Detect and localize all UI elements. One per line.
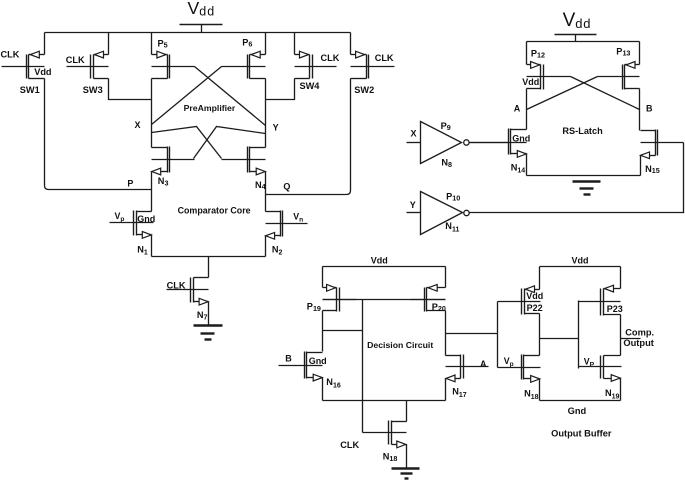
- label N16: [326, 377, 341, 389]
- label Vdd (SW1 bulk): [34, 67, 51, 77]
- wire N4 source to N2 drain: [265, 172, 267, 212]
- label Decision Circuit: [367, 340, 433, 350]
- wire tail to N7 drain: [208, 257, 210, 278]
- wire X input lead: [407, 142, 421, 144]
- svg-text:Gnd: Gnd: [137, 214, 155, 224]
- label SW1: [20, 85, 40, 95]
- transistor N18: [363, 421, 407, 448]
- wire node Y to N3 gate: [194, 127, 266, 159]
- label CLK (SW2 gate): [375, 53, 394, 63]
- svg-text:B: B: [646, 104, 653, 114]
- Vdd supply symbol (RS-latch): [555, 10, 597, 41]
- svg-text:SW4: SW4: [300, 81, 321, 91]
- svg-text:Y: Y: [410, 200, 416, 210]
- wire P22 drain to N18 drain: [539, 314, 541, 356]
- svg-text:A: A: [514, 104, 521, 114]
- wire N16 source to bottom rail: [322, 378, 324, 401]
- svg-text:SW1: SW1: [20, 85, 40, 95]
- transistor N14: [471, 129, 527, 158]
- Vdd supply symbol (comparator): [180, 0, 223, 32]
- transistor SW2: [351, 51, 395, 78]
- wire P20 source to rail: [445, 267, 447, 288]
- svg-text:Vdd: Vdd: [371, 256, 388, 266]
- label N18: [383, 452, 398, 463]
- label P23: [607, 304, 623, 314]
- label Output Buffer: [551, 428, 612, 438]
- label A (N17 gate): [480, 359, 487, 369]
- svg-text:Gnd: Gnd: [512, 134, 530, 144]
- label SW3: [83, 85, 103, 95]
- wire latch ground rail: [527, 175, 641, 177]
- label P: [127, 179, 133, 189]
- label P12: [531, 49, 545, 60]
- ground (RS-latch): [573, 182, 601, 195]
- label Gnd (buffer ground): [568, 406, 587, 416]
- wire SW2 source to rail: [350, 33, 352, 55]
- svg-text:P20: P20: [432, 302, 446, 313]
- wire decision output to buffer: [446, 333, 498, 335]
- wire buffer2 input column: [578, 301, 580, 369]
- svg-text:P9: P9: [441, 121, 451, 132]
- label Comp.: [625, 328, 654, 338]
- svg-text:SW2: SW2: [354, 85, 374, 95]
- transistor SW3: [67, 51, 109, 78]
- label Vdd (P22 bulk): [526, 291, 543, 301]
- svg-text:SW3: SW3: [83, 85, 103, 95]
- label Comparator Core: [178, 206, 251, 216]
- svg-text:CLK: CLK: [340, 440, 359, 450]
- label N4: [255, 180, 266, 191]
- label Vp (N1 gate): [115, 211, 125, 223]
- wire SW1 source to rail: [44, 33, 46, 55]
- label CLK (N7 gate): [167, 280, 186, 290]
- wire N18 buffer source to ground rail: [539, 379, 541, 401]
- wire N3 source to N1 drain: [151, 172, 153, 212]
- wire buffer ground rail: [540, 400, 621, 402]
- wire N2 source to tail: [265, 236, 267, 257]
- transistor N19: [579, 356, 622, 382]
- svg-text:PreAmplifier: PreAmplifier: [184, 103, 236, 113]
- transistor P13: [598, 62, 640, 90]
- label B: [646, 104, 653, 114]
- label CLK (N18 gate): [340, 440, 359, 450]
- wire P23 source to rail: [620, 267, 622, 289]
- wire inverter U1 output to N14 gate: [470, 142, 509, 144]
- label Y (latch input): [410, 200, 416, 210]
- power rail Vdd (decision circuit): [323, 266, 446, 268]
- wire preamp cross-couple P6 gate to X: [152, 67, 222, 125]
- svg-text:P: P: [127, 179, 133, 189]
- wire X column (P5 drain to N3 drain): [151, 79, 153, 148]
- wire inverter U2 output to N15 gate: [470, 143, 684, 213]
- transistor P22: [498, 286, 541, 315]
- wire Y column (P6 drain to N4 drain): [265, 79, 267, 148]
- wire N1 source to tail: [151, 235, 153, 257]
- power rail Vdd (RS-latch): [527, 41, 640, 43]
- svg-text:B: B: [285, 354, 292, 364]
- label N2: [272, 244, 283, 256]
- wire buffer1 output to buffer2 input: [540, 338, 579, 340]
- svg-text:P10: P10: [446, 191, 460, 202]
- svg-text:Y: Y: [273, 123, 279, 133]
- wire node A column: [526, 89, 528, 130]
- svg-text:CLK: CLK: [1, 50, 20, 60]
- wire P19 source to rail: [322, 267, 324, 288]
- wire preamp cross-couple P5 gate to Y: [195, 67, 266, 126]
- label N17: [452, 387, 467, 399]
- wire node B column: [639, 89, 641, 131]
- svg-text:P6: P6: [242, 37, 252, 48]
- wire SW3 drain to node X column: [109, 79, 152, 100]
- transistor P20: [411, 284, 446, 311]
- wire SW3 source to rail: [108, 33, 110, 55]
- transistor SW4: [295, 51, 337, 78]
- label N3: [158, 176, 169, 187]
- label P19: [307, 302, 321, 313]
- svg-text:Comparator Core: Comparator Core: [178, 206, 251, 216]
- label N18 (buffer): [524, 388, 539, 400]
- wire SW4 drain to node Y column: [266, 79, 295, 100]
- svg-text:N7: N7: [197, 310, 208, 321]
- label Gnd (N14 bulk): [512, 134, 530, 144]
- label SW4: [300, 81, 321, 91]
- wire P22 source to rail: [539, 267, 541, 290]
- transistor P12: [527, 62, 571, 90]
- transistor SW1: [2, 51, 45, 78]
- svg-text:P23: P23: [607, 304, 623, 314]
- label B (N16 gate): [285, 354, 292, 364]
- wire N17 source to bottom rail: [445, 379, 447, 401]
- wire P19 drain to N16 drain: [322, 311, 324, 352]
- transistor P6: [222, 51, 266, 78]
- transistor N2: [266, 211, 308, 240]
- inverter U1 (P9/N8): [421, 122, 470, 164]
- transistor P19: [323, 284, 357, 311]
- wire N18 drain to bottom rail: [406, 401, 408, 422]
- svg-text:X: X: [135, 120, 141, 130]
- svg-text:Q: Q: [283, 182, 290, 192]
- wire SW1 drain to node P: [45, 79, 152, 190]
- label N15: [645, 164, 660, 175]
- svg-text:P5: P5: [158, 38, 168, 49]
- transistor P23: [579, 285, 621, 315]
- wire P13 source to rail: [639, 42, 641, 65]
- wire P23 drain to N19 drain: [620, 315, 622, 356]
- svg-text:Output: Output: [623, 338, 653, 348]
- label Gnd (N16 bulk): [309, 356, 327, 366]
- svg-text:X: X: [411, 129, 417, 139]
- label P22: [527, 303, 543, 313]
- label P10: [446, 191, 460, 202]
- wire comparator output tap: [621, 338, 641, 340]
- wire latch cross-couple P13 gate to A: [527, 77, 598, 110]
- label A: [514, 104, 521, 114]
- svg-text:Vdd: Vdd: [572, 256, 589, 266]
- wire node X to N4 gate: [152, 127, 222, 159]
- svg-text:N8: N8: [441, 158, 452, 169]
- label CLK (SW1 gate): [1, 50, 20, 60]
- label Vp (N18 gate): [504, 356, 514, 368]
- wire N14 source to latch ground rail: [526, 154, 528, 176]
- wire P20 drain to N17 drain: [445, 311, 447, 356]
- transistor N1: [110, 211, 154, 239]
- label Vdd (P12 bulk): [522, 77, 539, 87]
- wire N19 source to ground rail: [620, 379, 622, 401]
- label Vdd (output buffer): [572, 256, 589, 266]
- svg-text:N4: N4: [255, 180, 266, 191]
- label P20: [432, 302, 446, 313]
- label P5: [158, 38, 168, 49]
- wire P6 source to rail: [265, 33, 267, 55]
- svg-text:N18: N18: [383, 452, 398, 463]
- svg-text:Vdd: Vdd: [34, 67, 51, 77]
- label P6: [242, 37, 252, 48]
- label Vn (N2 gate): [293, 211, 303, 223]
- label Gnd (N1 bulk): [137, 214, 155, 224]
- label X: [135, 120, 141, 130]
- wire tail rail: [152, 256, 266, 258]
- label Q: [283, 182, 290, 192]
- svg-text:Gnd: Gnd: [568, 406, 587, 416]
- transistor N7: [167, 278, 209, 306]
- ground (comparator tail): [194, 326, 223, 340]
- label N7: [197, 310, 208, 321]
- wire gate node column to N18 gate: [362, 300, 364, 433]
- svg-text:CLK: CLK: [66, 55, 85, 65]
- label N19: [605, 388, 620, 400]
- wire buffer1 input column: [497, 302, 499, 368]
- label Vdd (decision circuit): [371, 256, 388, 266]
- svg-text:P13: P13: [616, 47, 630, 58]
- transistor N18 (buffer): [498, 355, 541, 383]
- svg-text:P19: P19: [307, 302, 321, 313]
- inverter U2 (P10/N11): [421, 192, 470, 235]
- ground (decision circuit): [392, 469, 420, 479]
- svg-text:CLK: CLK: [321, 53, 340, 63]
- svg-text:Decision Circuit: Decision Circuit: [367, 340, 433, 350]
- power rail Vdd (output buffer): [540, 266, 621, 268]
- label X (latch input): [411, 129, 417, 139]
- wire P12 source to rail: [526, 42, 528, 65]
- label N11: [445, 221, 459, 233]
- svg-text:CLK: CLK: [375, 53, 394, 63]
- wire SW4 source to rail: [294, 33, 296, 55]
- wire P19 drain link: [323, 330, 363, 332]
- svg-text:Vdd: Vdd: [526, 291, 543, 301]
- power rail Vdd (comparator): [45, 32, 351, 34]
- label P13: [616, 47, 630, 58]
- label PreAmplifier: [184, 103, 236, 113]
- svg-text:N15: N15: [645, 164, 660, 175]
- svg-text:P22: P22: [527, 303, 543, 313]
- label N14: [511, 162, 526, 174]
- transistor N17: [446, 355, 489, 382]
- transistor N4: [222, 147, 266, 175]
- wire latch cross-couple P12 gate to B: [571, 77, 640, 110]
- svg-text:Vdd: Vdd: [522, 77, 539, 87]
- wire N18 source to ground: [406, 445, 408, 468]
- svg-text:A: A: [480, 359, 487, 369]
- svg-text:N3: N3: [158, 176, 169, 187]
- label Y: [273, 123, 279, 133]
- wire Y input lead: [407, 212, 421, 214]
- transistor N15: [641, 130, 684, 159]
- label RS-Latch: [562, 126, 603, 136]
- label P9: [441, 121, 451, 132]
- label N8: [441, 158, 452, 169]
- label CLK (SW3 gate): [66, 55, 85, 65]
- svg-text:Output Buffer: Output Buffer: [551, 428, 612, 438]
- label VP (N19 gate): [584, 356, 595, 368]
- svg-text:P12: P12: [531, 49, 545, 60]
- wire SW2 drain to node Q: [266, 79, 351, 195]
- svg-text:Gnd: Gnd: [309, 356, 327, 366]
- wire N15 source to latch ground rail: [640, 156, 642, 176]
- transistor P5: [152, 51, 195, 78]
- wire decision bottom rail: [323, 400, 446, 402]
- label N1: [137, 244, 148, 256]
- label SW2: [354, 85, 374, 95]
- svg-text:RS-Latch: RS-Latch: [562, 126, 603, 136]
- svg-text:Comp.: Comp.: [625, 328, 654, 338]
- label Output: [623, 338, 653, 348]
- transistor N3: [152, 147, 195, 175]
- wire N7 source to ground: [208, 302, 210, 326]
- wire P5 source to rail: [151, 33, 153, 55]
- wire P19/P20 gate line: [323, 299, 446, 301]
- label CLK (SW4 gate): [321, 53, 340, 63]
- transistor N16: [279, 352, 323, 381]
